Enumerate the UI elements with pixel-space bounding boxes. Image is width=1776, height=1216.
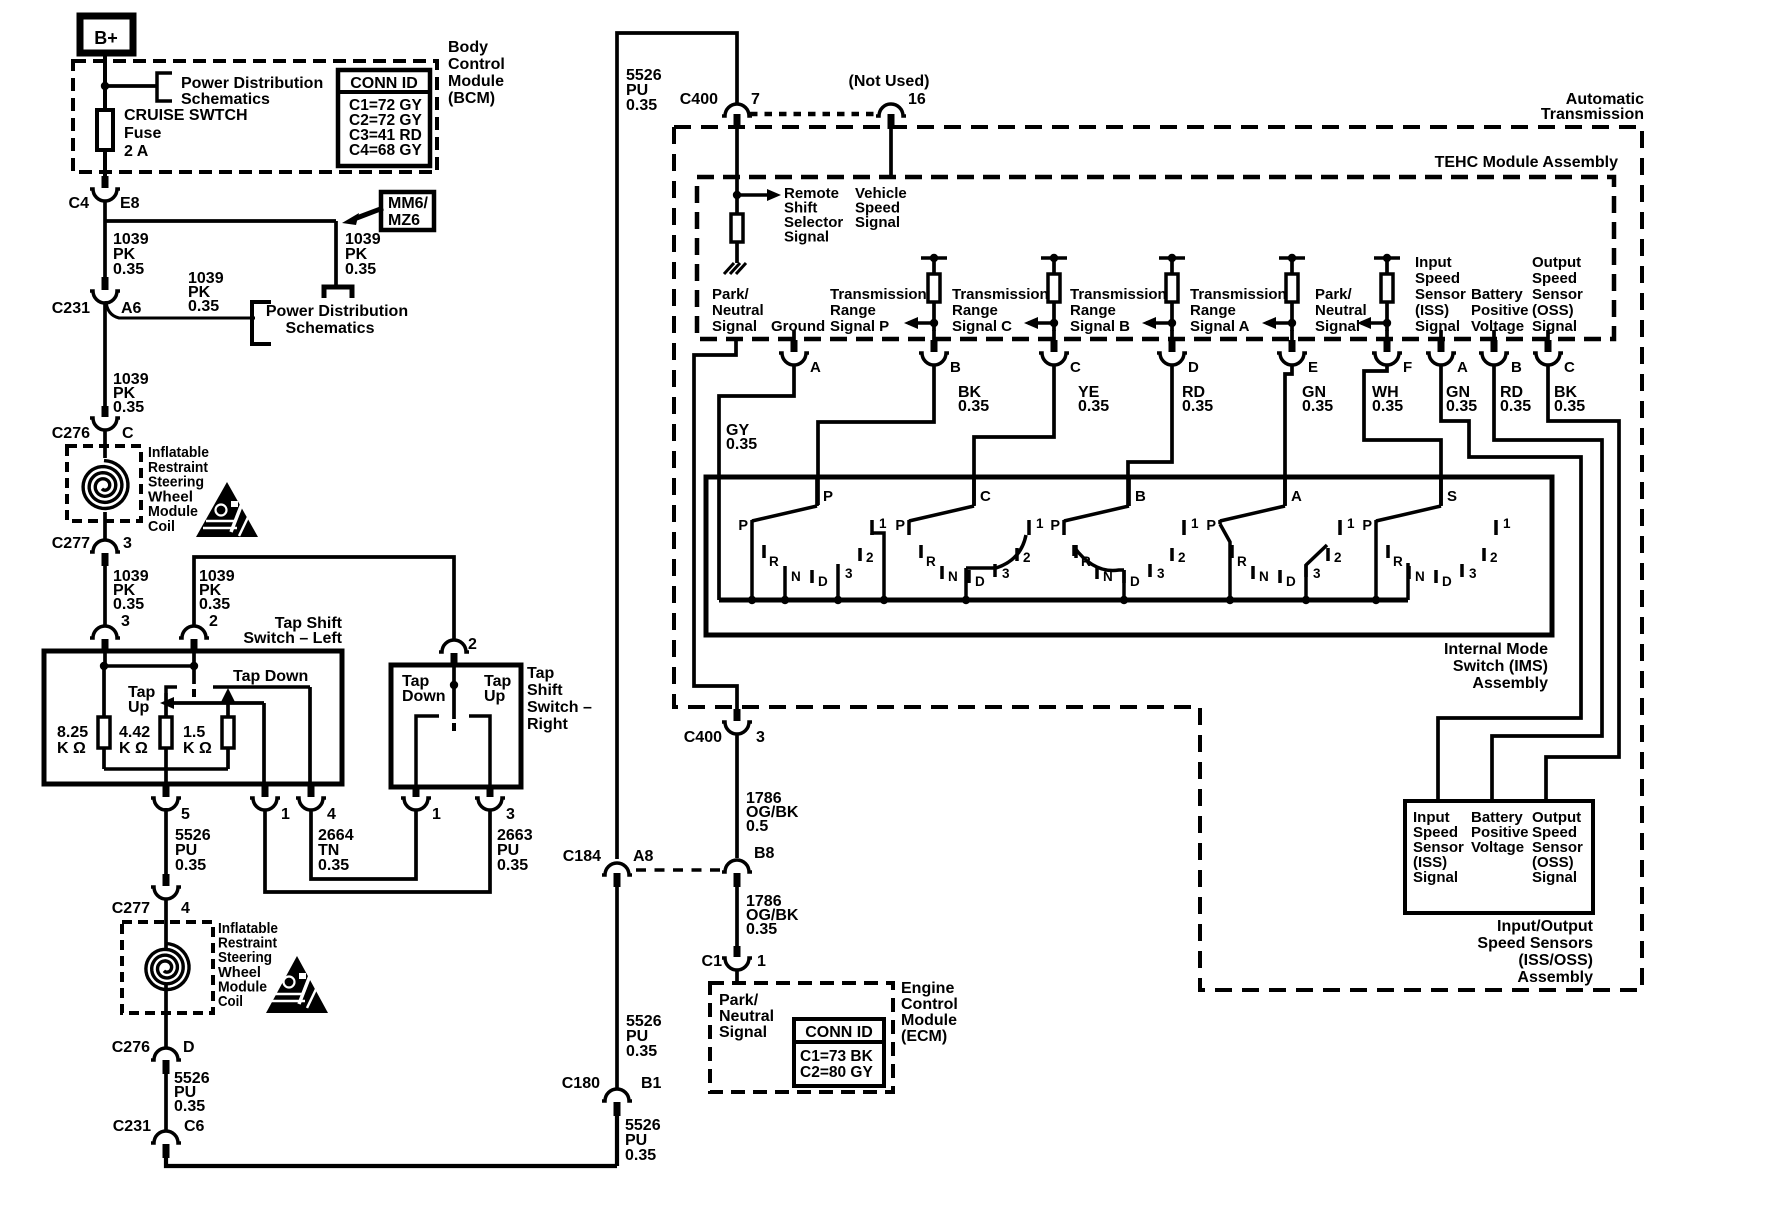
resistor 1.5 K ohm bbox=[222, 717, 234, 748]
svg-text:3: 3 bbox=[506, 806, 515, 823]
svg-text:2: 2 bbox=[468, 636, 477, 653]
wire C277 area to pin 2 connector riser bbox=[194, 557, 454, 640]
svg-text:2: 2 bbox=[1334, 550, 1342, 565]
wire C4 to C231 bbox=[103, 200, 107, 285]
tap shift switch right box bbox=[391, 665, 521, 787]
svg-text:8.25: 8.25 bbox=[57, 724, 88, 741]
TEHC pin C at x=1054 bbox=[1052, 330, 1056, 341]
IMS switch P: 3 to bus bbox=[836, 577, 840, 600]
svg-text:Range: Range bbox=[952, 302, 998, 319]
pointer bracket Power Distribution Schematics (top) bbox=[157, 73, 172, 101]
connector C277 pin 4 bbox=[163, 874, 170, 886]
svg-text:Voltage: Voltage bbox=[1471, 318, 1524, 335]
arrow junction at x=1054 bbox=[1050, 319, 1058, 327]
svg-text:Switch –: Switch – bbox=[527, 699, 592, 716]
svg-text:K Ω: K Ω bbox=[57, 740, 86, 757]
node dot right box bbox=[450, 681, 458, 689]
svg-text:R: R bbox=[769, 554, 779, 569]
IMS switch S: contact 1 bbox=[1494, 520, 1498, 535]
svg-text:P: P bbox=[738, 518, 748, 534]
IMS switch P: contact D bbox=[810, 570, 814, 583]
wire pin1 leg down bbox=[262, 703, 266, 785]
wiper dash right box bbox=[452, 723, 456, 731]
wiper stem right box bbox=[452, 685, 456, 719]
wire C231-C6 to bottom run bbox=[166, 1157, 617, 1166]
connector C231 pin A6 bbox=[102, 277, 109, 290]
connector pin 5 below left box bbox=[163, 785, 170, 797]
svg-text:Signal P: Signal P bbox=[830, 318, 889, 335]
wire bottom run up to C180 bbox=[615, 1115, 619, 1166]
IMS switch S: contact N bbox=[1407, 566, 1411, 579]
wire branch to power distribution pointer bbox=[105, 84, 157, 88]
connector pin 2 of tap shift switch right bbox=[439, 640, 469, 652]
svg-text:C276: C276 bbox=[52, 425, 90, 442]
svg-text:Neutral: Neutral bbox=[719, 1008, 774, 1025]
svg-text:C231: C231 bbox=[52, 300, 90, 317]
svg-text:Signal B: Signal B bbox=[1070, 318, 1130, 335]
node junction at BCM feed bbox=[101, 82, 109, 90]
resistor remote shift pulldown bbox=[735, 195, 739, 214]
wire C277 to tap shift switch left pin 3 bbox=[103, 565, 107, 626]
svg-text:A6: A6 bbox=[121, 300, 142, 317]
svg-text:(OSS): (OSS) bbox=[1532, 302, 1574, 319]
IMS switch S: wiper diagonal bbox=[1376, 506, 1441, 521]
wire pin16 into TEHC bbox=[889, 128, 893, 177]
wire D to IMS entry B bbox=[1128, 366, 1172, 505]
svg-text:1: 1 bbox=[1036, 516, 1044, 531]
IMS switch C: D to bus with arc to 1 bbox=[964, 568, 968, 600]
svg-text:A: A bbox=[810, 359, 821, 376]
svg-text:Transmission: Transmission bbox=[952, 286, 1049, 303]
svg-text:Schematics: Schematics bbox=[181, 91, 270, 108]
IMS switch S: contact 2 bbox=[1482, 548, 1486, 561]
IMS switch C: contact 3 bbox=[993, 564, 997, 577]
IMS switch P: wiper diagonal bbox=[752, 506, 817, 521]
svg-text:C400: C400 bbox=[684, 729, 722, 746]
switch wiper stem bbox=[192, 666, 196, 684]
svg-text:0.35: 0.35 bbox=[626, 1043, 657, 1060]
IMS switch A: contact N bbox=[1251, 566, 1255, 579]
IMS switch C: contact 2 bbox=[1015, 548, 1019, 561]
svg-text:B8: B8 bbox=[754, 845, 775, 862]
tap shift switch left box bbox=[44, 651, 342, 784]
resistor bottom bus bbox=[104, 767, 228, 771]
svg-text:Internal Mode: Internal Mode bbox=[1444, 641, 1548, 658]
svg-text:Neutral: Neutral bbox=[712, 302, 764, 319]
wire Park/Neutral exit from TEHC bbox=[694, 339, 737, 709]
wire branch to MM6/MZ6 tap bbox=[105, 219, 336, 223]
arrow junction at x=1292 bbox=[1288, 319, 1296, 327]
svg-text:Switch – Left: Switch – Left bbox=[243, 630, 342, 647]
svg-text:0.35: 0.35 bbox=[345, 261, 376, 278]
svg-text:2: 2 bbox=[209, 613, 218, 630]
svg-text:1: 1 bbox=[1347, 516, 1355, 531]
svg-text:Body: Body bbox=[448, 39, 488, 56]
svg-text:1: 1 bbox=[281, 806, 290, 823]
connector pin 3 of tap shift switch left bbox=[90, 626, 120, 638]
svg-text:Signal: Signal bbox=[855, 214, 900, 231]
fuse CRUISE SWTCH 2A bbox=[97, 110, 113, 150]
resistor 8.25 K ohm bbox=[102, 666, 106, 717]
IMS switch A: 3 to bus with slant to 2 bbox=[1304, 565, 1308, 600]
svg-text:(ECM): (ECM) bbox=[901, 1028, 947, 1045]
svg-text:Module: Module bbox=[448, 73, 504, 90]
svg-text:D: D bbox=[1442, 574, 1452, 589]
svg-text:D: D bbox=[1188, 359, 1199, 376]
IMS switch P: contact 2 bbox=[858, 548, 862, 561]
svg-text:Power Distribution: Power Distribution bbox=[266, 303, 408, 320]
SRS warning triangle (lower) bbox=[266, 956, 328, 1013]
IMS switch P: entry wire bbox=[815, 476, 819, 506]
IMS switch P: 1 to bus route bbox=[870, 533, 874, 535]
IMS switch S: N to bus end bbox=[1406, 563, 1410, 600]
IMS switch B: contact 1 bbox=[1182, 520, 1186, 535]
svg-text:Tap Down: Tap Down bbox=[233, 668, 308, 685]
svg-text:Assembly: Assembly bbox=[1472, 675, 1548, 692]
inflatable restraint coil box (upper) dashed bbox=[67, 446, 141, 521]
wire branch C231 to power distribution pointer bbox=[106, 301, 255, 318]
svg-text:3: 3 bbox=[1469, 566, 1477, 581]
connector pin 2 of tap shift switch left bbox=[179, 626, 209, 638]
svg-text:0.35: 0.35 bbox=[113, 399, 144, 416]
ECM dashed box bbox=[710, 983, 893, 1092]
IMS switch C: contact 1 bbox=[1027, 520, 1031, 535]
IMS switch A: contact 2 bbox=[1326, 548, 1330, 561]
svg-text:B: B bbox=[1135, 488, 1146, 505]
wire pin5 leg bbox=[164, 769, 168, 785]
IMS switch A: wiper diagonal bbox=[1220, 506, 1285, 521]
svg-text:C184: C184 bbox=[563, 848, 601, 865]
svg-text:C: C bbox=[1564, 359, 1575, 376]
svg-text:Tap: Tap bbox=[527, 665, 554, 682]
TEHC pin B at x=934 bbox=[932, 330, 936, 341]
label MM6/MZ6 box bbox=[381, 192, 434, 230]
connector C231 pin C6 bbox=[151, 1131, 181, 1143]
wire pin2 into right box bbox=[452, 666, 456, 683]
resistor 4.42 K ohm bbox=[160, 717, 172, 748]
svg-text:C: C bbox=[122, 425, 134, 442]
wire battery B to speed sensor box bbox=[1492, 366, 1602, 801]
IMS switch A: contact 1 bbox=[1338, 520, 1342, 535]
svg-text:Signal C: Signal C bbox=[952, 318, 1012, 335]
svg-text:C4=68 GY: C4=68 GY bbox=[349, 142, 422, 159]
TEHC pin B at x=1494 bbox=[1492, 330, 1496, 341]
svg-text:Signal: Signal bbox=[1532, 869, 1577, 886]
wire coil to C276 pin D bbox=[164, 984, 168, 1048]
svg-text:0.35: 0.35 bbox=[188, 298, 219, 315]
svg-text:3: 3 bbox=[121, 613, 130, 630]
svg-text:Signal: Signal bbox=[719, 1024, 767, 1041]
clockspring coil symbol (upper) bbox=[83, 461, 128, 509]
svg-text:0.35: 0.35 bbox=[175, 857, 206, 874]
IMS switch B: wiper diagonal bbox=[1064, 506, 1129, 521]
IMS switch P: contact 1 bbox=[870, 520, 874, 535]
svg-text:E8: E8 bbox=[120, 195, 140, 212]
wire ISS A to speed sensor box bbox=[1438, 366, 1581, 801]
svg-text:Battery: Battery bbox=[1471, 286, 1523, 303]
svg-text:0.35: 0.35 bbox=[113, 596, 144, 613]
IMS switch B: arc R to D, D to bus bbox=[1074, 547, 1124, 571]
tap up arrow line to pin 1 leg bbox=[170, 701, 264, 705]
svg-text:P: P bbox=[1206, 518, 1216, 534]
IMS switch B: contact D bbox=[1122, 570, 1126, 583]
svg-text:7: 7 bbox=[751, 91, 760, 108]
svg-text:16: 16 bbox=[908, 91, 926, 108]
IMS switch B: contact R bbox=[1074, 545, 1078, 558]
IMS switch P: contact 3 bbox=[836, 564, 840, 577]
wire OSS C to speed sensor box bbox=[1546, 366, 1619, 801]
svg-text:Engine: Engine bbox=[901, 980, 954, 997]
wire B+ to fuse bbox=[103, 53, 107, 110]
wire E to IMS entry A bbox=[1285, 366, 1292, 505]
svg-text:0.35: 0.35 bbox=[1446, 398, 1477, 415]
svg-text:Module: Module bbox=[901, 1012, 957, 1029]
svg-text:P: P bbox=[895, 518, 905, 534]
svg-text:Sensor: Sensor bbox=[1415, 286, 1466, 303]
svg-text:Coil: Coil bbox=[218, 993, 243, 1010]
svg-text:CONN ID: CONN ID bbox=[350, 75, 418, 92]
svg-text:0.35: 0.35 bbox=[174, 1098, 205, 1115]
svg-text:Transmission: Transmission bbox=[1190, 286, 1287, 303]
svg-text:(ISS/OSS): (ISS/OSS) bbox=[1518, 952, 1593, 969]
svg-text:N: N bbox=[948, 569, 958, 584]
wire pin1 to right box pin3 bbox=[265, 810, 490, 892]
wire C to IMS entry C bbox=[974, 366, 1054, 505]
svg-text:C180: C180 bbox=[562, 1075, 600, 1092]
svg-text:N: N bbox=[791, 569, 801, 584]
svg-text:2: 2 bbox=[1178, 550, 1186, 565]
node junction remote shift bbox=[733, 191, 741, 199]
svg-text:0.35: 0.35 bbox=[113, 261, 144, 278]
svg-text:A: A bbox=[1291, 488, 1302, 505]
svg-text:2: 2 bbox=[1023, 550, 1031, 565]
svg-text:C231: C231 bbox=[113, 1118, 151, 1135]
svg-text:Range: Range bbox=[1070, 302, 1116, 319]
pull-up resistor at x=1387 bbox=[1374, 256, 1400, 260]
svg-text:Neutral: Neutral bbox=[1315, 302, 1367, 319]
IMS switch S: P to bus bbox=[1374, 520, 1378, 600]
svg-text:1: 1 bbox=[432, 806, 441, 823]
wire pin5 to C277 pin4 bbox=[164, 808, 168, 875]
arrow junction at x=1387 bbox=[1383, 319, 1391, 327]
wire pin4 to right box pin1 bbox=[311, 810, 416, 879]
svg-text:(Not Used): (Not Used) bbox=[849, 73, 930, 90]
IMS switch A: contact R bbox=[1230, 545, 1234, 558]
svg-text:Control: Control bbox=[901, 996, 958, 1013]
svg-text:5: 5 bbox=[181, 806, 190, 823]
svg-text:TEHC Module Assembly: TEHC Module Assembly bbox=[1435, 154, 1619, 171]
svg-text:Signal A: Signal A bbox=[1190, 318, 1250, 335]
svg-text:C276: C276 bbox=[112, 1039, 150, 1056]
connector pin 3 below right box bbox=[487, 785, 494, 797]
svg-text:Signal: Signal bbox=[784, 229, 829, 246]
arrow junction at x=934 bbox=[930, 319, 938, 327]
svg-text:C277: C277 bbox=[112, 900, 150, 917]
IMS switch S: contact R bbox=[1386, 545, 1390, 558]
svg-text:Speed: Speed bbox=[1415, 270, 1460, 287]
wire pin4 leg down bbox=[308, 687, 312, 785]
connector pin 1 below right box bbox=[413, 785, 420, 797]
svg-text:Down: Down bbox=[402, 688, 446, 705]
svg-text:D: D bbox=[975, 574, 985, 589]
svg-text:D: D bbox=[183, 1039, 195, 1056]
svg-text:3: 3 bbox=[1157, 566, 1165, 581]
IMS switch B: contact 3 bbox=[1148, 564, 1152, 577]
IMS switch P: contact N bbox=[783, 566, 787, 579]
IMS common bus bbox=[719, 598, 1408, 603]
wire fuse to connector C4 bbox=[103, 150, 107, 177]
TEHC pin E at x=1292 bbox=[1290, 330, 1294, 341]
CONN ID table (BCM) bbox=[338, 70, 430, 166]
wire C231 to C276 bbox=[103, 303, 107, 413]
svg-text:Input/Output: Input/Output bbox=[1497, 918, 1594, 935]
wire tap up contact to resistor R2 bbox=[164, 693, 168, 717]
svg-text:3: 3 bbox=[845, 566, 853, 581]
svg-text:Ground: Ground bbox=[771, 318, 825, 335]
svg-text:C4: C4 bbox=[69, 195, 90, 212]
svg-text:4: 4 bbox=[181, 900, 190, 917]
svg-text:1: 1 bbox=[1191, 516, 1199, 531]
wire B8 to C1 bbox=[735, 886, 739, 947]
svg-text:Range: Range bbox=[1190, 302, 1236, 319]
wire pin7 into TEHC bbox=[735, 128, 739, 195]
IMS switch A: contact 3 bbox=[1304, 564, 1308, 577]
svg-text:R: R bbox=[1393, 554, 1403, 569]
svg-text:Speed: Speed bbox=[1532, 270, 1577, 287]
svg-text:Schematics: Schematics bbox=[286, 320, 375, 337]
svg-text:Signal: Signal bbox=[712, 318, 757, 335]
svg-text:B: B bbox=[950, 359, 961, 376]
svg-text:R: R bbox=[926, 554, 936, 569]
inflatable restraint coil box (lower) dashed bbox=[122, 922, 213, 1013]
svg-text:Park/: Park/ bbox=[719, 992, 759, 1009]
internal bus wire bbox=[104, 664, 194, 668]
svg-text:C400: C400 bbox=[680, 91, 718, 108]
svg-text:Voltage: Voltage bbox=[1471, 839, 1524, 856]
svg-text:K Ω: K Ω bbox=[183, 740, 212, 757]
wire down to off-page symbol bbox=[334, 221, 338, 286]
IMS switch S: contact 3 bbox=[1460, 564, 1464, 577]
svg-text:Input: Input bbox=[1415, 254, 1452, 271]
arrow to Remote Shift Selector Signal bbox=[737, 193, 768, 197]
svg-text:Switch (IMS): Switch (IMS) bbox=[1453, 658, 1548, 675]
wire main 5526 PU riser bbox=[617, 33, 737, 859]
svg-text:0.35: 0.35 bbox=[199, 596, 230, 613]
connector C4 pin E8 bbox=[102, 176, 109, 188]
svg-text:R: R bbox=[1237, 554, 1247, 569]
IMS switch C: wiper diagonal bbox=[909, 506, 974, 521]
svg-text:Sensor: Sensor bbox=[1532, 286, 1583, 303]
svg-text:Transmission: Transmission bbox=[1541, 106, 1644, 123]
wiper contact dash bbox=[192, 689, 196, 697]
svg-text:4.42: 4.42 bbox=[119, 724, 150, 741]
pull-up resistor at x=1172 bbox=[1159, 256, 1185, 260]
svg-text:C277: C277 bbox=[52, 535, 90, 552]
TEHC pin A at x=1441 bbox=[1439, 330, 1443, 341]
svg-text:Assembly: Assembly bbox=[1517, 969, 1593, 986]
svg-text:E: E bbox=[1308, 359, 1318, 376]
svg-text:D: D bbox=[818, 574, 828, 589]
svg-text:C2=80 GY: C2=80 GY bbox=[800, 1064, 873, 1081]
connector C276 pin D bbox=[151, 1048, 181, 1060]
pull-up resistor at x=1054 bbox=[1041, 256, 1067, 260]
node dot left bbox=[100, 662, 108, 670]
svg-text:2 A: 2 A bbox=[124, 143, 149, 160]
svg-text:N: N bbox=[1415, 569, 1425, 584]
svg-text:D: D bbox=[1286, 574, 1296, 589]
wire pin3 into bus bbox=[103, 652, 107, 666]
wire pin2 into bus bbox=[192, 652, 196, 666]
IMS switch C: contact N bbox=[940, 566, 944, 579]
IMS switch C: contact R bbox=[919, 545, 923, 558]
clockspring coil symbol (lower) bbox=[146, 944, 189, 990]
SRS warning triangle (upper) bbox=[196, 482, 258, 537]
tap up contact right box bbox=[469, 716, 490, 785]
svg-text:MM6/: MM6/ bbox=[388, 195, 429, 212]
svg-text:0.35: 0.35 bbox=[726, 436, 757, 453]
internal mode switch IMS box bbox=[706, 477, 1552, 635]
svg-text:Up: Up bbox=[484, 688, 506, 705]
svg-text:Output: Output bbox=[1532, 254, 1581, 271]
svg-text:P: P bbox=[1362, 518, 1372, 534]
wire C184 to C180 bbox=[615, 887, 619, 1089]
wire C276 into coil box bbox=[103, 430, 107, 458]
off-page symbol (goes-to bracket) bbox=[324, 287, 352, 298]
svg-text:0.35: 0.35 bbox=[1372, 398, 1403, 415]
tap down arrow to resistor R3 bbox=[221, 688, 235, 702]
svg-text:(BCM): (BCM) bbox=[448, 90, 495, 107]
svg-text:3: 3 bbox=[1002, 566, 1010, 581]
svg-text:Speed Sensors: Speed Sensors bbox=[1477, 935, 1593, 952]
svg-text:0.35: 0.35 bbox=[497, 857, 528, 874]
svg-text:0.35: 0.35 bbox=[1302, 398, 1333, 415]
svg-text:1: 1 bbox=[1503, 516, 1511, 531]
svg-text:C: C bbox=[980, 488, 991, 505]
svg-text:3: 3 bbox=[1313, 566, 1321, 581]
pull-up resistor at x=1292 bbox=[1279, 256, 1305, 260]
svg-text:Shift: Shift bbox=[527, 682, 563, 699]
battery feed B+ box bbox=[80, 16, 133, 53]
IMS switch A: contact D bbox=[1278, 570, 1282, 583]
svg-text:B1: B1 bbox=[641, 1075, 662, 1092]
IMS switch P: N to bus bbox=[783, 579, 787, 600]
IMS switch S: entry wire bbox=[1439, 476, 1443, 506]
svg-text:4: 4 bbox=[327, 806, 336, 823]
chassis ground symbol bbox=[724, 263, 746, 274]
svg-text:Positive: Positive bbox=[1471, 302, 1529, 319]
IMS switch A: entry wire bbox=[1283, 476, 1287, 506]
svg-text:1: 1 bbox=[879, 516, 887, 531]
svg-text:Transmission: Transmission bbox=[1070, 286, 1167, 303]
svg-text:CRUISE SWTCH: CRUISE SWTCH bbox=[124, 107, 248, 124]
svg-text:P: P bbox=[1050, 518, 1060, 534]
wire C277-4 into lower coil box bbox=[164, 899, 168, 950]
svg-text:Power Distribution: Power Distribution bbox=[181, 75, 323, 92]
svg-text:Coil: Coil bbox=[148, 518, 175, 535]
svg-text:0.35: 0.35 bbox=[1500, 398, 1531, 415]
svg-text:1: 1 bbox=[757, 953, 766, 970]
connector C277 pin 3 (top) bbox=[90, 540, 120, 552]
wire B to IMS entry P bbox=[818, 366, 934, 505]
svg-text:C: C bbox=[1070, 359, 1081, 376]
arrow junction at x=1172 bbox=[1168, 319, 1176, 327]
connector C276 pin C bbox=[102, 406, 109, 417]
IMS switch P: contact R bbox=[762, 545, 766, 558]
svg-text:1.5: 1.5 bbox=[183, 724, 205, 741]
pointer bracket Power Distribution Schematics (mid) bbox=[252, 302, 271, 344]
IMS switch B: entry wire bbox=[1127, 476, 1131, 506]
svg-text:0.35: 0.35 bbox=[1182, 398, 1213, 415]
